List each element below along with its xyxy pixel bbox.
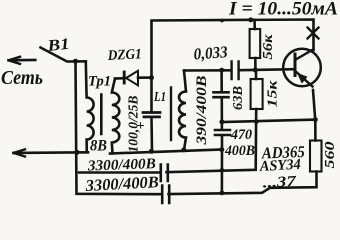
svg-text:560: 560 [323, 142, 338, 169]
svg-text:3300/400В: 3300/400В [84, 172, 159, 195]
svg-text:8В: 8В [90, 138, 107, 155]
svg-text:В1: В1 [46, 36, 71, 55]
svg-text:ASY34: ASY34 [258, 157, 301, 175]
svg-text:56к: 56к [261, 33, 276, 59]
svg-text:0,033: 0,033 [193, 42, 228, 63]
svg-text:Тр1: Тр1 [88, 74, 111, 90]
svg-text:+: + [137, 119, 145, 134]
svg-text:3300/400В: 3300/400В [87, 156, 157, 174]
svg-text:390/400В: 390/400В [194, 75, 210, 146]
svg-text:63В: 63В [231, 86, 246, 110]
svg-text:L1: L1 [153, 89, 166, 104]
svg-text:15к: 15к [266, 79, 281, 107]
svg-text:...37: ...37 [262, 174, 296, 192]
svg-text:I = 10...50мА: I = 10...50мА [228, 0, 338, 20]
svg-text:400В: 400В [224, 143, 255, 159]
svg-text:470: 470 [230, 127, 252, 143]
svg-text:Сеть: Сеть [1, 67, 43, 89]
svg-text:DZG1: DZG1 [106, 46, 142, 64]
